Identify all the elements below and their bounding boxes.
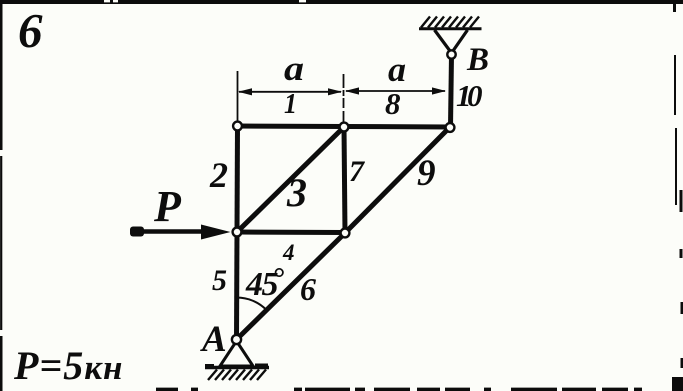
node circles [232, 50, 456, 344]
svg-text:a: a [284, 49, 304, 88]
svg-text:6: 6 [18, 3, 43, 58]
member 2 [235, 126, 241, 232]
node B [447, 50, 455, 58]
dimension extension tick middle [343, 74, 345, 122]
member 9 [345, 127, 450, 233]
svg-text:P=5кн: P=5кн [13, 343, 123, 388]
svg-text:8: 8 [385, 86, 401, 121]
dimension line a (right) [346, 90, 445, 92]
bottom-right corner blob [672, 377, 683, 391]
member 7 [344, 127, 345, 233]
svg-text:4: 4 [282, 240, 295, 265]
support A: triangle [220, 341, 253, 366]
truss members [237, 55, 452, 340]
node N3 [446, 123, 455, 132]
svg-text:3: 3 [286, 170, 307, 215]
svg-text:P: P [153, 182, 182, 231]
member 6 [237, 233, 346, 340]
svg-text:9: 9 [417, 153, 436, 194]
svg-text:6: 6 [300, 271, 316, 307]
svg-text:7: 7 [349, 155, 365, 188]
node N2 [340, 123, 349, 132]
node A [232, 335, 241, 344]
dimension line a (left) [239, 91, 341, 93]
svg-text:B: B [466, 42, 489, 78]
bottom page border (dashed scan edge) [156, 388, 642, 391]
45 degree arc [237, 298, 267, 310]
support B: ceiling hatching [421, 17, 479, 28]
svg-text:5: 5 [212, 264, 227, 297]
force P arrow [134, 229, 206, 234]
node N5 [341, 229, 350, 238]
member 10 [451, 55, 452, 127]
support B: ceiling line [419, 27, 482, 30]
support A: ground hatching [208, 370, 266, 381]
svg-text:a: a [388, 50, 406, 89]
member 3 [237, 127, 344, 232]
member 5 [234, 232, 240, 340]
dimension extension tick left [237, 71, 239, 121]
right page border (broken) [675, 0, 683, 368]
node N1 [233, 122, 242, 131]
svg-text:1: 1 [284, 88, 297, 120]
top page border [0, 1, 683, 3]
left page border [0, 0, 3, 391]
svg-text:2: 2 [209, 155, 228, 195]
member 8 [344, 124, 451, 130]
member 4 [237, 230, 345, 236]
member 1 [237, 124, 344, 130]
support A: ground line [205, 366, 269, 370]
support B: triangle [435, 30, 468, 53]
svg-text:°: ° [272, 262, 284, 295]
node N4 [233, 228, 242, 237]
svg-text:A: A [200, 319, 227, 360]
